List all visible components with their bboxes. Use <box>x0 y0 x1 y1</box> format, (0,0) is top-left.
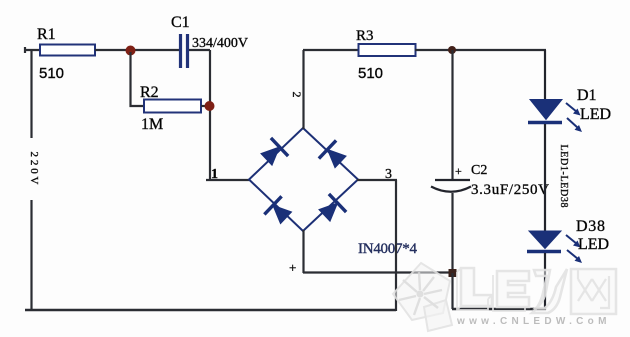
svg-text:+: + <box>455 164 462 178</box>
svg-text:3.3uF/250V: 3.3uF/250V <box>471 182 549 198</box>
watermark letter E <box>493 271 529 311</box>
wire: top wire to R3 <box>303 49 359 51</box>
wire: bridge bottom vertical <box>302 230 304 273</box>
wire: D38 to bottom rail <box>544 253 546 310</box>
svg-text:510: 510 <box>39 65 64 82</box>
svg-text:C1: C1 <box>171 14 190 31</box>
svg-text:LED1-LED38: LED1-LED38 <box>558 145 569 208</box>
junction dot J1 <box>126 46 136 56</box>
LED D1 <box>528 100 562 123</box>
svg-text:D38: D38 <box>576 218 605 235</box>
wire: AC input terminal tick <box>24 47 26 53</box>
wire: bridge plus output horizontal <box>303 271 452 273</box>
wire: vertical x=210 down to node 1 <box>209 50 211 180</box>
wire: R2 right to J2 <box>201 105 210 107</box>
wire: left vertical upper (220V source top) <box>30 50 32 138</box>
svg-text:D1: D1 <box>577 87 597 104</box>
diode D-TL (points to top vertex) <box>258 138 288 169</box>
svg-text:220V: 220V <box>28 152 40 185</box>
wire: J4 down <box>451 273 453 309</box>
watermark star shield <box>393 263 452 331</box>
svg-text:R1: R1 <box>37 26 56 43</box>
junction dot J2 <box>205 101 215 111</box>
LED D38 emission arrows <box>566 235 582 263</box>
bridge rectifier diamond <box>249 128 358 231</box>
diode D-TR (points to top vertex) <box>319 140 349 171</box>
junction dot J4 <box>449 269 457 277</box>
svg-text:LED: LED <box>580 106 611 123</box>
resistor R2 <box>144 100 201 113</box>
wire: bridge top vertical (node 2) <box>302 50 304 129</box>
wire: LED column top <box>544 50 546 100</box>
capacitor C2 <box>431 180 471 192</box>
svg-text:2: 2 <box>290 92 304 98</box>
LED D38 <box>527 231 561 252</box>
watermark logo <box>393 263 616 331</box>
wire: bottom rail <box>25 309 396 312</box>
LED D1 emission arrows <box>566 103 582 132</box>
wire: between D1 and D38 <box>544 124 546 231</box>
wire: left terminal to R1 <box>24 49 41 51</box>
svg-text:+: + <box>289 260 296 275</box>
wire: bridge right to node 3 corner <box>357 179 397 181</box>
svg-text:334/400V: 334/400V <box>192 36 248 51</box>
svg-text:R3: R3 <box>356 28 374 44</box>
svg-text:www.CNLEDW.CoM: www.CNLEDW.CoM <box>456 316 611 327</box>
resistor R3 <box>359 44 416 56</box>
wire: C1 to corner <box>189 49 210 51</box>
wire: node 1 to bridge left <box>206 179 250 181</box>
resistor R1 <box>40 45 95 56</box>
diode D-BR (points to right vertex) <box>316 194 346 225</box>
wire: left vertical lower (220V source bottom) <box>30 200 32 310</box>
diode D-BL (points to left vertex) <box>264 196 294 227</box>
svg-text:LED: LED <box>578 236 609 253</box>
capacitor C1 <box>181 34 188 68</box>
svg-text:IN4007*4: IN4007*4 <box>358 241 418 257</box>
svg-text:R2: R2 <box>140 84 159 101</box>
wire: J1 down to R2 <box>131 52 145 106</box>
wire: R3 to LED column <box>415 49 546 51</box>
svg-text:C2: C2 <box>471 163 487 178</box>
svg-text:510: 510 <box>358 65 383 82</box>
junction dot J3 <box>448 46 456 54</box>
wire: J3 down to C2 <box>451 50 453 179</box>
wire: bottom right rail <box>452 308 546 311</box>
wire: node 3 vertical down to rail <box>395 180 397 311</box>
wire: R1 to C1 <box>95 49 179 51</box>
watermark letter L <box>457 268 492 310</box>
wire: C2 bottom to J4 <box>451 193 453 273</box>
svg-text:1M: 1M <box>141 116 163 133</box>
watermark letter D stylized <box>532 269 567 313</box>
watermark glyph 网 <box>571 269 616 314</box>
